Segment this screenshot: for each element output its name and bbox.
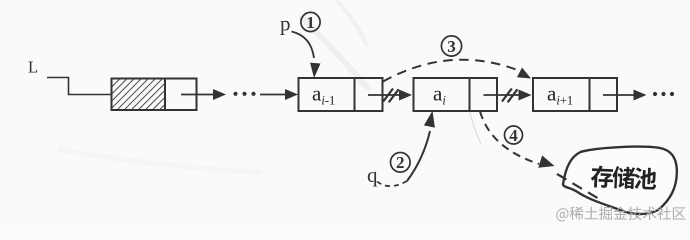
svg-text:q: q: [367, 163, 378, 187]
svg-text:3: 3: [447, 37, 456, 56]
svg-text:2: 2: [396, 153, 405, 172]
svg-text:L: L: [28, 58, 38, 77]
svg-text:1: 1: [306, 13, 315, 32]
svg-text:4: 4: [509, 126, 518, 145]
svg-text:p: p: [280, 12, 291, 36]
